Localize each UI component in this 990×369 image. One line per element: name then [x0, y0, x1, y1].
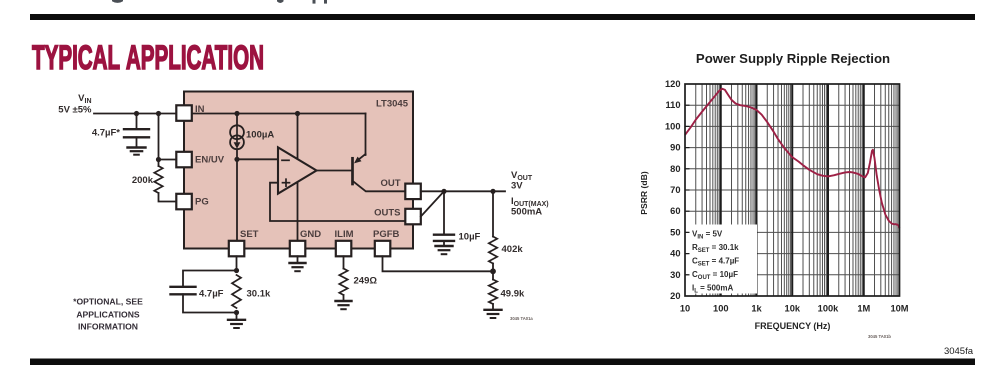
- svg-text:100: 100: [665, 121, 681, 131]
- svg-text:ILIM: ILIM: [335, 229, 354, 240]
- y axis labels: [665, 79, 681, 301]
- svg-text:LT3045: LT3045: [376, 99, 409, 110]
- wire to ground: [236, 313, 238, 319]
- svg-text:10: 10: [680, 304, 690, 314]
- svg-text:10k: 10k: [785, 304, 801, 314]
- svg-text:Power Supply Ripple Rejection: Power Supply Ripple Rejection: [696, 51, 890, 66]
- svg-text:100: 100: [713, 304, 729, 314]
- svg-text:3V: 3V: [511, 181, 523, 192]
- svg-text:120: 120: [665, 79, 681, 89]
- pin EN/UV: [176, 152, 192, 168]
- wire PGFB to divider: [383, 256, 494, 271]
- wire SET external: [236, 256, 238, 270]
- junction SET node: [234, 157, 239, 162]
- svg-text:4.7µF*: 4.7µF*: [92, 128, 120, 139]
- svg-text:PGFB: PGFB: [373, 229, 400, 240]
- wire output rail: [421, 190, 505, 192]
- x axis labels: [680, 304, 909, 314]
- svg-text:30: 30: [670, 270, 680, 280]
- junction gnd rail tap: [295, 111, 300, 116]
- top rule bar: [30, 14, 975, 20]
- wire OUTS sense diagonal: [421, 191, 444, 216]
- svg-text:20: 20: [670, 291, 680, 301]
- svg-text:IN: IN: [195, 104, 205, 115]
- wire amp ground rail IN to GND pin: [297, 114, 299, 241]
- pin OUT: [405, 184, 421, 200]
- transistor Q1 pass PNP: [351, 158, 354, 184]
- junction EN/UV node: [156, 157, 161, 162]
- current source I1 100µA: [230, 114, 244, 160]
- svg-text:402k: 402k: [502, 244, 524, 255]
- capacitor CSET 4.7µF: [171, 287, 196, 295]
- graph conditions box: [689, 225, 758, 294]
- svg-text:PG: PG: [195, 197, 209, 208]
- IC U1 LT3045 block: [184, 92, 413, 249]
- svg-text:FREQUENCY (Hz): FREQUENCY (Hz): [755, 321, 831, 331]
- svg-text:10M: 10M: [890, 304, 908, 314]
- PSRR curve: [685, 89, 900, 229]
- svg-text:1k: 1k: [751, 304, 762, 314]
- ground (GND pin): [290, 263, 306, 271]
- resistor 49.9k: [489, 280, 497, 304]
- resistor 249Ω: [339, 269, 347, 296]
- wire internal IN rail: [192, 113, 366, 115]
- wire CSET bottom: [183, 294, 237, 312]
- plus sign: [283, 182, 290, 184]
- graph grid major decade lines: [721, 84, 864, 296]
- junction divider node: [490, 189, 495, 194]
- svg-text:100k: 100k: [818, 304, 840, 314]
- svg-text:110: 110: [666, 100, 681, 110]
- wire 200k to PG: [159, 193, 177, 202]
- svg-text:APPLICATIONS: APPLICATIONS: [76, 310, 140, 320]
- svg-text:OUT: OUT: [380, 178, 400, 189]
- svg-text:10µF: 10µF: [459, 232, 481, 243]
- junction PGFB divider node: [490, 268, 496, 274]
- resistor 200k: [154, 166, 162, 193]
- pin OUTS: [405, 209, 421, 225]
- svg-text:TYPICAL APPLICATION: TYPICAL APPLICATION: [32, 39, 264, 77]
- wire SET node to SET pin: [236, 159, 238, 240]
- ground (divider): [485, 310, 502, 318]
- junction SET RC top: [234, 268, 239, 273]
- svg-text:30.1k: 30.1k: [247, 289, 271, 300]
- svg-text:70: 70: [670, 185, 680, 195]
- svg-text:500mA: 500mA: [511, 207, 542, 218]
- wire VIN input rail: [94, 113, 176, 115]
- pin SET: [229, 241, 245, 256]
- junction input cap node: [134, 111, 139, 116]
- wire EN/UV branch: [159, 114, 177, 160]
- svg-text:90: 90: [670, 143, 680, 153]
- svg-text:1M: 1M: [857, 304, 870, 314]
- svg-text:INFORMATION: INFORMATION: [78, 322, 138, 332]
- wire GND pin stub: [297, 256, 299, 262]
- ground (SET network): [228, 320, 245, 328]
- wire inverting input: [237, 158, 278, 160]
- svg-text:49.9k: 49.9k: [501, 289, 525, 300]
- minus sign: [282, 159, 289, 161]
- resistor 402k: [492, 191, 494, 236]
- wire base drive: [317, 170, 353, 172]
- svg-text:60: 60: [670, 206, 680, 216]
- bottom rule bar: [30, 359, 975, 366]
- svg-text:5V ±5%: 5V ±5%: [58, 105, 92, 116]
- graph border frame: [685, 84, 900, 296]
- svg-text:OUTS: OUTS: [374, 208, 400, 219]
- svg-text:100µA: 100µA: [246, 130, 274, 141]
- svg-text:3045fa: 3045fa: [944, 346, 974, 357]
- wire to CSET: [183, 271, 237, 286]
- svg-text:200k: 200k: [132, 175, 154, 186]
- pin PG: [176, 194, 192, 210]
- ground (input cap): [128, 148, 146, 155]
- pin GND: [290, 241, 306, 256]
- svg-text:3045 TA01a: 3045 TA01a: [510, 316, 533, 321]
- junction EN branch: [156, 111, 161, 116]
- svg-text:SET: SET: [240, 229, 259, 240]
- wire ILIM stub: [343, 256, 345, 268]
- capacitor COUT 10µF: [434, 191, 454, 245]
- resistor RSET 30.1k: [232, 275, 241, 308]
- ground (COUT): [436, 246, 453, 254]
- op-amp U1 error amplifier: [278, 147, 317, 193]
- junction current source tap: [234, 111, 239, 116]
- junction COUT node: [441, 189, 446, 194]
- graph grid minor lines: [685, 84, 900, 296]
- svg-text:*OPTIONAL, SEE: *OPTIONAL, SEE: [73, 296, 143, 306]
- pin PGFB: [375, 241, 391, 256]
- capacitor CIN 4.7µF*: [124, 114, 149, 147]
- pin IN: [176, 105, 192, 121]
- svg-text:40: 40: [670, 249, 680, 259]
- svg-text:EN/UV: EN/UV: [195, 155, 225, 166]
- junction SET RC bottom: [234, 310, 239, 315]
- svg-text:3045 TA01b: 3045 TA01b: [868, 334, 891, 339]
- svg-text:PSRR (dB): PSRR (dB): [639, 171, 649, 215]
- svg-text:4.7µF: 4.7µF: [199, 289, 224, 300]
- cropped text fragments top edge: [112, 0, 327, 4]
- pin ILIM: [336, 241, 352, 256]
- svg-text:GND: GND: [300, 229, 321, 240]
- graph y-axis ticks: [685, 105, 690, 275]
- ground (ILIM): [336, 301, 352, 309]
- svg-text:249Ω: 249Ω: [354, 276, 378, 287]
- wire noninverting feedback: [270, 183, 405, 221]
- svg-text:50: 50: [670, 227, 680, 237]
- svg-text:80: 80: [670, 164, 680, 174]
